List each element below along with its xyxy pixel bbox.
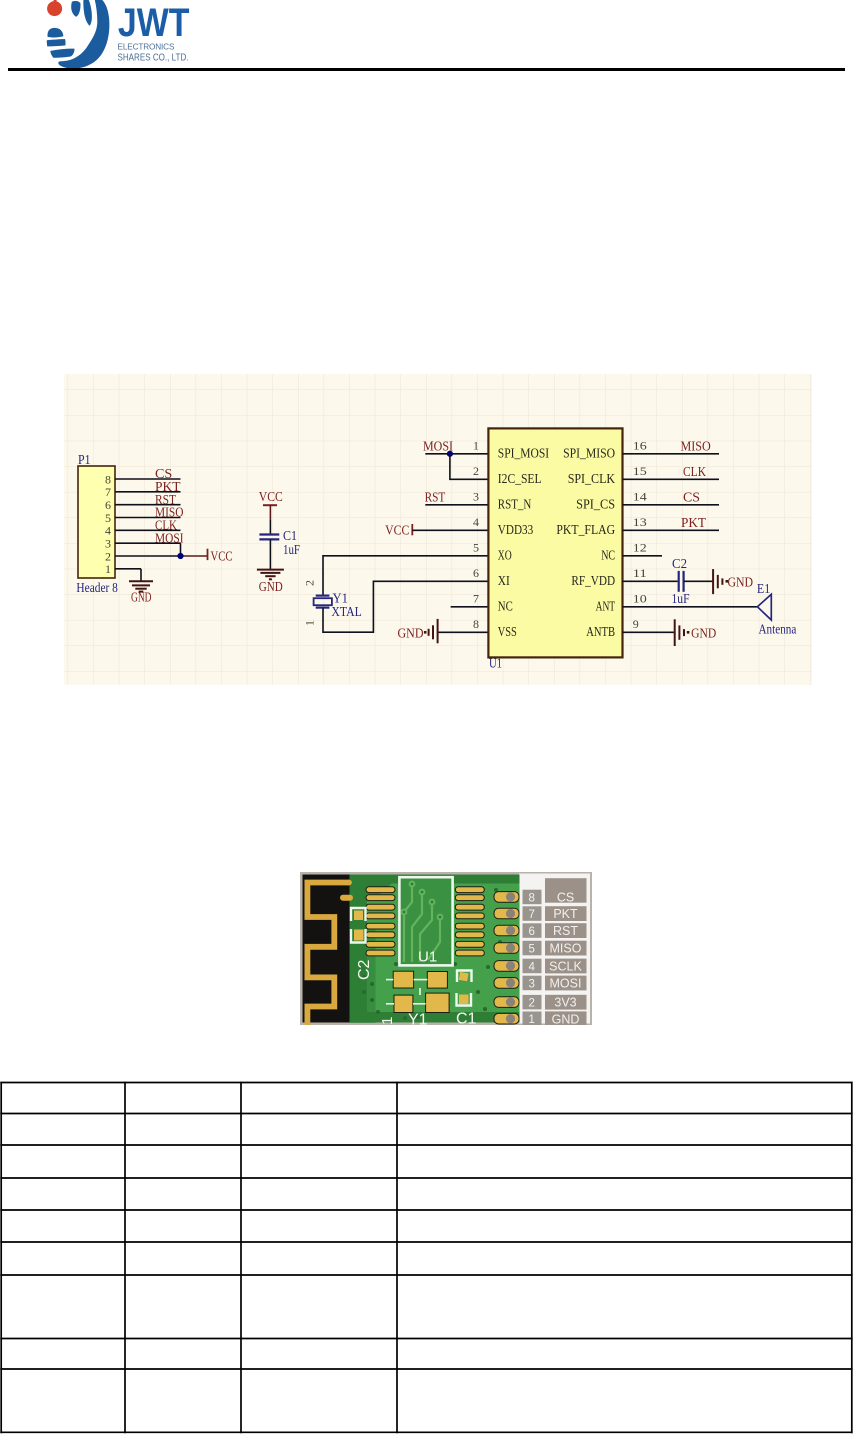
svg-text:MISO: MISO <box>681 440 711 455</box>
svg-text:SPI_MOSI: SPI_MOSI <box>498 447 550 462</box>
dot of ground symbol C2 <box>726 580 729 583</box>
power port VCC at U1 pin 4 <box>385 524 412 539</box>
logo ear stripe 1 <box>47 28 63 38</box>
sideways ground symbol at U1 pin 8 <box>429 619 438 643</box>
wire MOSI to U1 pin 1 <box>425 453 488 455</box>
svg-text:CS: CS <box>683 491 700 506</box>
logo ear stripe 3 <box>50 49 74 58</box>
svg-text:1: 1 <box>473 439 479 453</box>
dot of ground symbol pin 9 <box>687 631 690 634</box>
U1 left pin name RST_N (pin 3) <box>498 498 532 513</box>
svg-text:Y1: Y1 <box>333 590 349 605</box>
U1 pin number 2 <box>473 464 479 478</box>
U1 pin number 8 <box>473 617 479 631</box>
value label Antenna <box>759 621 797 636</box>
svg-text:VCC: VCC <box>385 524 409 539</box>
PCB green soldermask <box>350 875 520 1023</box>
ground label GND below C1 <box>259 580 283 595</box>
wire P1 pin 2 to VCC <box>115 555 208 557</box>
ground label GND at C2 <box>728 576 754 591</box>
U1 pin number 9 <box>633 617 639 631</box>
svg-text:RST_N: RST_N <box>498 498 532 513</box>
svg-text:PKT_FLAG: PKT_FLAG <box>556 523 615 538</box>
svg-text:CLK: CLK <box>683 465 706 480</box>
wire Y1 pin1 to U1 XI (pin6) <box>323 581 488 632</box>
ground label GND at U1 pin 9 <box>691 627 716 642</box>
pin number 5 of P1 <box>105 511 111 525</box>
svg-text:7: 7 <box>529 909 535 921</box>
crystal Y1 XTAL <box>314 596 332 608</box>
net label MOSI at U1 pin 1 <box>423 440 453 455</box>
net label CS <box>155 467 172 482</box>
svg-text:MOSI: MOSI <box>550 977 582 991</box>
antenna E1 <box>757 594 771 620</box>
U1 right pin name SPI_CS (pin 14) <box>576 498 615 513</box>
svg-text:Header 8: Header 8 <box>76 580 118 595</box>
svg-text:VCC: VCC <box>259 490 283 505</box>
wire P1 pin 6 net RST <box>115 504 181 506</box>
PCB pin 6 label RST <box>523 923 542 938</box>
svg-text:NC: NC <box>601 549 615 564</box>
svg-text:13: 13 <box>633 515 647 529</box>
pin number 3 of P1 <box>105 537 111 551</box>
pin number 2 of Y1 <box>303 580 317 586</box>
power port VCC above C1 <box>259 490 283 520</box>
svg-text:4: 4 <box>473 515 479 529</box>
U1 right pin name NC (pin 12) <box>601 549 615 564</box>
svg-text:7: 7 <box>473 592 479 606</box>
svg-text:C1: C1 <box>283 528 297 543</box>
PCB pin 4 label SCLK <box>523 959 542 974</box>
wire U1 pin 13 net PKT <box>623 529 720 531</box>
net label RST <box>155 493 176 508</box>
connector P1 (Header 8) <box>78 466 115 578</box>
svg-text:JWT: JWT <box>118 1 189 45</box>
wire P1 pin 4 net CLK <box>115 529 181 531</box>
svg-text:12: 12 <box>633 541 647 555</box>
wire U1 pin 11 RF_VDD to C2 <box>623 580 678 582</box>
U1 left pin name VDD33 (pin 4) <box>498 523 533 538</box>
svg-text:7: 7 <box>105 485 111 499</box>
value 1uF of C1 <box>283 542 300 557</box>
logo red stem <box>54 0 57 3</box>
ground label GND at P1 <box>131 590 152 605</box>
PCB pin 1 label GND <box>523 1012 542 1027</box>
svg-text:C1: C1 <box>456 1011 477 1026</box>
U1 pin number 10 <box>633 592 647 606</box>
net label MOSI <box>155 531 184 546</box>
svg-text:XTAL: XTAL <box>331 604 361 619</box>
svg-text:Y1: Y1 <box>408 1012 428 1026</box>
svg-text:SPI_MISO: SPI_MISO <box>563 447 615 462</box>
U1 right pin name ANT (pin 10) <box>596 600 616 615</box>
U1 pin number 5 <box>473 541 479 555</box>
wire U1 pin 8 VSS to ground <box>438 631 489 633</box>
svg-text:MISO: MISO <box>550 942 582 956</box>
svg-text:C2: C2 <box>356 959 373 980</box>
U1 pin number 7 <box>473 592 479 606</box>
svg-text:PKT: PKT <box>681 516 706 531</box>
wire P1 pin 7 net PKT <box>115 491 181 493</box>
logo small wedge <box>71 1 80 17</box>
svg-text:6: 6 <box>529 926 535 938</box>
value label Header 8 <box>76 580 118 595</box>
logo big blue swoosh <box>58 0 109 69</box>
PCB pin 8 label CS <box>523 890 542 905</box>
U1 pin number 15 <box>633 464 647 478</box>
PCB castellated edge pads <box>494 892 519 1024</box>
svg-text:XI: XI <box>498 574 510 589</box>
svg-text:8: 8 <box>473 617 479 631</box>
svg-text:CS: CS <box>557 891 574 905</box>
empty specification table grid <box>0 1082 852 1434</box>
capacitor C1 1uF <box>259 535 279 540</box>
svg-text:3: 3 <box>473 490 479 504</box>
U1 right pin name PKT_FLAG (pin 13) <box>556 523 615 538</box>
wire VCC to U1 pin 4 <box>412 529 488 531</box>
svg-text:5: 5 <box>473 541 479 555</box>
wire RST to U1 pin 3 <box>425 504 488 506</box>
pin stub U1 pin 12 NC <box>623 555 663 557</box>
PCB U1 footprint outline <box>399 877 452 965</box>
wire C2 to ground <box>684 580 714 582</box>
svg-text:1: 1 <box>105 562 111 576</box>
svg-text:XO: XO <box>498 549 512 564</box>
svg-text:SPI_CS: SPI_CS <box>576 498 615 513</box>
PCB pin label panel background <box>519 874 590 1024</box>
svg-text:1: 1 <box>303 620 317 626</box>
svg-text:VSS: VSS <box>498 625 517 640</box>
wire U1 pin 16 net MISO <box>623 453 720 455</box>
IC U1 <box>488 428 622 657</box>
svg-text:GND: GND <box>691 627 716 642</box>
designator P1 <box>78 452 91 467</box>
wire pin3 to pin2 junction <box>180 543 182 556</box>
svg-text:GND: GND <box>552 1012 580 1025</box>
svg-text:6: 6 <box>473 566 479 580</box>
svg-text:U1: U1 <box>418 949 437 966</box>
svg-text:5: 5 <box>529 943 535 955</box>
svg-text:GND: GND <box>131 590 152 605</box>
designator E1 <box>757 581 770 596</box>
logo red dot <box>47 1 62 16</box>
svg-text:2: 2 <box>529 998 535 1010</box>
wire U1 XO (pin5) to Y1 pin2 <box>323 556 488 596</box>
svg-text:SPI_CLK: SPI_CLK <box>568 472 615 487</box>
net label PKT <box>155 480 181 495</box>
designator C2 <box>672 556 687 571</box>
svg-text:14: 14 <box>633 490 647 504</box>
U1 right pin name SPI_MISO (pin 16) <box>563 447 615 462</box>
svg-text:U1: U1 <box>489 655 502 670</box>
value XTAL of Y1 <box>331 604 361 619</box>
PCB pin 2 label 3V3 <box>523 995 542 1010</box>
designator Y1 <box>333 590 349 605</box>
logo middle stripe <box>83 0 92 26</box>
svg-text:I2C_SEL: I2C_SEL <box>498 472 542 487</box>
pin number 4 of P1 <box>105 524 111 538</box>
svg-text:VCC: VCC <box>211 550 233 565</box>
pin number 8 of P1 <box>105 472 111 486</box>
net label CLK <box>155 519 177 534</box>
U1 left pin name XI (pin 6) <box>498 574 510 589</box>
wire P1 pin 1 to ground <box>115 569 141 582</box>
wire C1 to ground <box>269 539 271 569</box>
svg-text:E1: E1 <box>757 581 770 596</box>
pin number 2 of P1 <box>105 549 111 563</box>
U1 pin number 1 <box>473 439 479 453</box>
svg-text:1uF: 1uF <box>672 591 690 606</box>
svg-text:PKT: PKT <box>553 907 578 921</box>
svg-text:1uF: 1uF <box>283 542 300 557</box>
PCB pin 7 label PKT <box>523 906 542 921</box>
power port VCC at P1 <box>208 549 233 565</box>
net label CLK <box>683 465 706 480</box>
svg-text:4: 4 <box>105 524 111 538</box>
U1 left pin name XO (pin 5) <box>498 549 512 564</box>
U1 pin number 6 <box>473 566 479 580</box>
U1 left pin name SPI_MOSI (pin 1) <box>498 447 550 462</box>
svg-text:ANT: ANT <box>596 600 616 615</box>
svg-text:16: 16 <box>633 439 647 453</box>
ground symbol at P1 pin 1 <box>129 581 153 591</box>
svg-text:GND: GND <box>398 627 424 642</box>
pin number 7 of P1 <box>105 485 111 499</box>
designator U1 <box>489 655 502 670</box>
pin stub U1 pin 7 NC <box>451 606 489 608</box>
U1 right pin name ANTB (pin 9) <box>586 625 615 640</box>
pin number 1 of Y1 <box>303 620 317 626</box>
U1 pin number 3 <box>473 490 479 504</box>
svg-text:VDD33: VDD33 <box>498 523 533 538</box>
PCB IC pads columns <box>366 887 484 956</box>
U1 pin number 13 <box>633 515 647 529</box>
U1 pin number 16 <box>633 439 647 453</box>
svg-text:C2: C2 <box>672 556 687 571</box>
svg-text:2: 2 <box>303 580 317 586</box>
U1 left pin name VSS (pin 8) <box>498 625 517 640</box>
svg-text:GND: GND <box>728 576 754 591</box>
svg-text:P1: P1 <box>78 452 91 467</box>
svg-text:ANTB: ANTB <box>586 625 615 640</box>
PCB meander antenna trace <box>307 883 349 1026</box>
net label RST at U1 pin 3 <box>425 491 446 506</box>
junction dot MOSI <box>447 451 453 457</box>
U1 right pin name SPI_CLK (pin 15) <box>568 472 615 487</box>
svg-text:4: 4 <box>529 961 536 973</box>
net label MISO <box>681 440 711 455</box>
wire U1 pin 15 net CLK <box>623 478 720 480</box>
ground symbol below C1 <box>257 570 284 580</box>
net label PKT <box>681 516 706 531</box>
net label CS <box>683 491 700 506</box>
svg-text:11: 11 <box>633 566 647 580</box>
ground label GND at U1 pin 8 <box>398 627 424 642</box>
svg-text:RST: RST <box>553 924 578 938</box>
wire P1 pin 3 net MOSI <box>115 542 181 544</box>
svg-text:SHARES CO., LTD.: SHARES CO., LTD. <box>118 53 189 64</box>
wire U1 pin 14 net CS <box>623 504 720 506</box>
designator C1 <box>283 528 297 543</box>
svg-text:1: 1 <box>529 1014 535 1025</box>
svg-text:RST: RST <box>425 491 446 506</box>
U1 pin number 11 <box>633 566 647 580</box>
svg-text:9: 9 <box>633 617 639 631</box>
sideways ground symbol at C2 <box>713 569 722 594</box>
wire P1 pin 5 net MISO <box>115 517 181 519</box>
svg-text:15: 15 <box>633 464 647 478</box>
U1 right pin name RF_VDD (pin 11) <box>571 574 615 589</box>
svg-text:3: 3 <box>529 978 535 990</box>
U1 pin number 14 <box>633 490 647 504</box>
svg-text:Antenna: Antenna <box>759 621 797 636</box>
pin number 6 of P1 <box>105 498 111 512</box>
svg-text:MOSI: MOSI <box>155 531 184 546</box>
svg-text:8: 8 <box>529 892 535 904</box>
wire U1 pin 9 ANTB to ground <box>623 631 675 633</box>
svg-text:2: 2 <box>473 464 479 478</box>
U1 left pin name I2C_SEL (pin 2) <box>498 472 542 487</box>
svg-text:3V3: 3V3 <box>554 996 576 1010</box>
net label MISO <box>155 506 184 521</box>
svg-text:SCLK: SCLK <box>549 960 582 974</box>
header rule <box>8 68 845 71</box>
pin number 1 of P1 <box>105 562 111 576</box>
logo ear stripe 2 <box>47 39 66 46</box>
wire U1 pin 10 ANT to antenna E1 <box>623 606 758 608</box>
value 1uF of C2 <box>672 591 690 606</box>
wire junction to U1 pin 2 <box>450 454 489 480</box>
dot of ground symbol pin 8 <box>424 631 427 634</box>
svg-text:RF_VDD: RF_VDD <box>571 574 615 589</box>
PCB pin 5 label MISO <box>523 941 542 956</box>
sideways ground symbol at U1 pin 9 <box>675 619 684 646</box>
U1 left pin name NC (pin 7) <box>498 600 513 615</box>
svg-text:NC: NC <box>498 600 513 615</box>
U1 pin number 4 <box>473 515 479 529</box>
PCB pin 3 label MOSI <box>523 976 542 991</box>
svg-text:GND: GND <box>259 580 283 595</box>
PCB photo frame <box>300 872 592 1025</box>
wire VCC to C1 <box>269 520 271 534</box>
PCB antenna keepout (black) <box>303 875 350 1023</box>
capacitor C2 1uF <box>679 571 684 592</box>
svg-text:10: 10 <box>633 592 647 606</box>
junction dot P1 pin2 <box>177 553 183 559</box>
U1 pin number 12 <box>633 541 647 555</box>
svg-text:1: 1 <box>379 1017 396 1025</box>
svg-text:ELECTRONICS: ELECTRONICS <box>118 43 176 52</box>
wire P1 pin 8 net CS <box>115 478 181 480</box>
